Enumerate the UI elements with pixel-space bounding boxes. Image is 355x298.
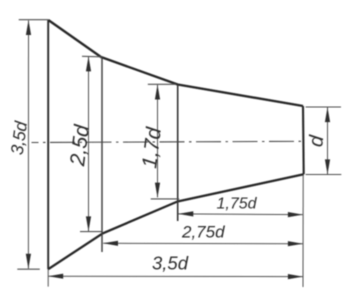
svg-text:2,75d: 2,75d [181,223,225,242]
section edge at 1,7d [177,85,179,222]
top contour of cone [48,20,303,106]
big end face (left vertical of cone) [47,20,49,269]
svg-text:1,75d: 1,75d [217,196,258,213]
svg-text:1,7d: 1,7d [138,125,166,170]
extension tick d bottom [306,174,342,176]
extension line below big face [47,269,49,286]
bottom contour of cone [48,174,304,269]
small end face (right vertical of cone) [302,106,305,174]
dimension line d (right vertical) [327,107,329,174]
extension tick top-left (3,5d top) [19,19,49,21]
extension tick d top [306,106,341,108]
dimension line 1,75d (horizontal) [179,213,303,216]
svg-text:2,5d: 2,5d [66,122,94,168]
svg-text:3,5d: 3,5d [7,119,32,156]
svg-text:d: d [305,134,328,149]
extension line below small face [302,175,304,287]
dimension line 2,5d (vertical) [88,57,90,232]
dimension line 3,5d (left vertical) [27,21,29,269]
extension tick 2,5d top [82,55,102,58]
dimension line 1,7d (vertical) [157,85,159,198]
dimension line 3,5d bottom (horizontal) [48,275,302,277]
extension tick 1,7d top [148,83,176,85]
extension tick 1,7d bottom [151,198,180,200]
extension tick 2,5d bottom [80,231,102,233]
section edge at 2,5d [101,57,103,252]
svg-text:3,5d: 3,5d [152,253,189,274]
centre line (dash-dot axis) [32,141,306,142]
extension tick bottom-left (3,5d bottom) [17,268,40,270]
dimension line 2,75d (horizontal) [103,242,303,244]
